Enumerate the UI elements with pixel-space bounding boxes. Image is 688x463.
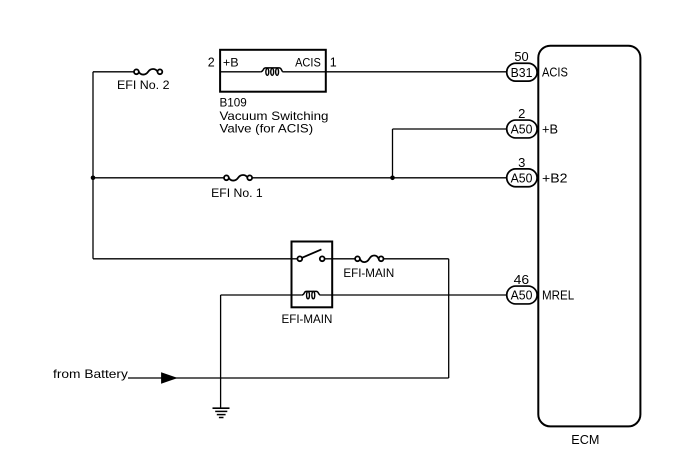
- svg-text:A50: A50: [511, 171, 533, 186]
- fuse EFI-MAIN: [355, 255, 383, 262]
- svg-text:EFI-MAIN: EFI-MAIN: [282, 312, 333, 326]
- wire: left vertical bus: [92, 72, 94, 259]
- arrow (battery feed direction): [161, 372, 178, 384]
- svg-text:A50: A50: [511, 122, 533, 137]
- svg-text:ACIS: ACIS: [295, 56, 321, 70]
- coil L1 (VSV solenoid): [261, 68, 283, 75]
- wire: relay contact row from bus: [93, 258, 297, 260]
- wire: vertical branch to +B row: [392, 129, 394, 178]
- svg-text:50: 50: [514, 49, 528, 64]
- node B: junction EFI No.1 / +B branch: [390, 176, 395, 181]
- svg-text:EFI No. 2: EFI No. 2: [117, 78, 170, 92]
- pin A50 (46 MREL): [507, 272, 575, 304]
- svg-text:Valve (for ACIS): Valve (for ACIS): [220, 122, 314, 136]
- relay EFI-MAIN box: [292, 242, 333, 308]
- svg-text:1: 1: [330, 56, 337, 70]
- pin A50 (3 +B2): [507, 155, 568, 187]
- svg-text:46: 46: [514, 272, 530, 287]
- wire: ground stem: [220, 295, 222, 408]
- coil L2 (relay coil): [302, 291, 321, 298]
- svg-text:+B: +B: [223, 56, 239, 70]
- switch contact (relay): [297, 249, 324, 261]
- wire: VSV box to ECM pin B31: [326, 71, 507, 73]
- ECM connector body: [538, 46, 640, 427]
- svg-text:EFI-MAIN: EFI-MAIN: [343, 266, 394, 280]
- fuse EFI No. 2: [134, 69, 162, 75]
- svg-text:B31: B31: [511, 65, 533, 80]
- svg-text:MREL: MREL: [542, 289, 574, 303]
- svg-text:B109: B109: [220, 96, 248, 110]
- svg-text:+B2: +B2: [542, 171, 568, 185]
- wire: inside VSV box: [220, 71, 261, 73]
- wire: EFI No.1 row from bus to pin +B2: [93, 177, 224, 179]
- wire: from battery row: [128, 377, 449, 379]
- svg-text:+B: +B: [542, 123, 558, 137]
- wire: right vertical down to battery row: [448, 259, 450, 378]
- svg-text:from Battery: from Battery: [53, 367, 128, 381]
- svg-text:3: 3: [518, 155, 525, 170]
- svg-text:ECM: ECM: [571, 433, 599, 447]
- vacuum switching valve B109 box: [220, 50, 326, 92]
- svg-text:A50: A50: [511, 288, 533, 303]
- ground: [213, 408, 230, 417]
- svg-text:2: 2: [208, 56, 215, 70]
- svg-text:EFI No. 1: EFI No. 1: [211, 186, 263, 200]
- wire: +B row to pin A50: [393, 128, 507, 130]
- svg-text:2: 2: [518, 106, 525, 121]
- pin B31 (50 ACIS): [507, 49, 568, 81]
- wire: relay coil row (ground side): [221, 294, 302, 296]
- node A: junction bus / EFI No.1: [91, 176, 96, 181]
- fuse EFI No. 1: [224, 175, 252, 181]
- svg-text:ACIS: ACIS: [542, 66, 568, 80]
- wire: relay coil to ECM pin MREL: [320, 294, 506, 296]
- wire: top feed from left vertical to VSV box: [93, 71, 134, 73]
- pin A50 (2 +B): [507, 106, 558, 138]
- wire: fuse EFI-MAIN to right vertical: [384, 258, 449, 260]
